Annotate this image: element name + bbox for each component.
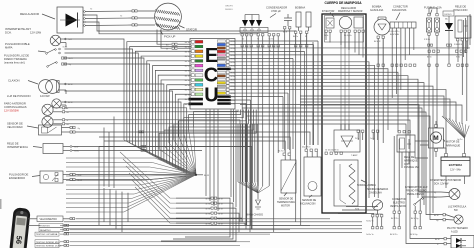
- wire fuel pump down: [378, 39, 383, 199]
- svg-text:W.Bk: W.Bk: [230, 45, 234, 47]
- connector rele second row: [457, 64, 468, 66]
- node ground bundle Bk.W: [195, 174, 209, 177]
- svg-text:Gr.W: Gr.W: [74, 146, 79, 149]
- svg-text:W.Bk: W.Bk: [230, 97, 234, 99]
- svg-text:SONDA RESERVA: SONDA RESERVA: [367, 188, 388, 191]
- svg-text:CORTAS/LARGAS: CORTAS/LARGAS: [4, 105, 27, 109]
- wire reg-stator phase2: [85, 17, 132, 20]
- svg-text:FARO ANTERIOR: FARO ANTERIOR: [4, 102, 26, 106]
- wires bottom buses: [64, 222, 362, 233]
- wires diagnosis down: [392, 28, 414, 98]
- connector rele interm: [70, 146, 79, 153]
- svg-text:A LED: A LED: [451, 231, 458, 234]
- svg-text:VENTILADOR: VENTILADOR: [390, 205, 406, 208]
- label conector ventilador: [390, 198, 406, 208]
- wires battery area: [415, 141, 465, 188]
- svg-text:PULSADOR LUZ DE: PULSADOR LUZ DE: [4, 54, 29, 58]
- svg-text:BOMBA: BOMBA: [372, 5, 382, 9]
- label REGULADOR: [20, 12, 40, 16]
- connector bomba second row: [377, 39, 384, 67]
- svg-text:MOTOR: MOTOR: [281, 205, 290, 208]
- svg-text:W.Bk: W.Bk: [230, 76, 234, 78]
- wires center verticals: [246, 41, 318, 229]
- connector ventilador: [391, 209, 400, 221]
- label sensor temp: [277, 193, 295, 208]
- svg-text:DCH. 12V-6W: DCH. 12V-6W: [434, 184, 449, 186]
- wire reg out B: [85, 22, 258, 34]
- lambda heater resistor: [340, 164, 355, 204]
- label luz patricula: [448, 206, 467, 213]
- svg-text:GRUPO: GRUPO: [225, 6, 233, 8]
- svg-text:Bk.Ye: Bk.Ye: [185, 80, 190, 82]
- labels sonda reserva pins: [366, 221, 374, 223]
- svg-text:W.Bk: W.Bk: [230, 72, 234, 74]
- svg-text:CONECTOR: CONECTOR: [393, 5, 408, 9]
- svg-text:W.Bk: W.Bk: [230, 52, 234, 54]
- label conector diagnosis: [392, 5, 408, 20]
- wires sensor feeds: [99, 137, 290, 153]
- svg-text:RELE DE: RELE DE: [455, 5, 466, 9]
- svg-text:INCLINACION: INCLINACION: [300, 203, 316, 206]
- diode pack: [240, 15, 268, 33]
- svg-text:FRENO TRASERA: FRENO TRASERA: [4, 57, 27, 61]
- connector diodo second row: [448, 45, 450, 66]
- connector mid-right row: [355, 130, 379, 140]
- label rele intermitencia: [7, 142, 42, 150]
- injector symbol: [326, 18, 334, 28]
- label pulsador doble mapa: [5, 42, 30, 50]
- wire fuse up: [429, 8, 437, 14]
- wires bottom right feeds: [240, 105, 444, 244]
- wires throttle down: [326, 33, 363, 131]
- svg-text:Gr (Gr.B) W.Ye: Gr (Gr.B) W.Ye: [325, 149, 340, 152]
- svg-text:12V-5W: 12V-5W: [40, 94, 50, 98]
- ECU box: [190, 39, 235, 110]
- connector claxon: [64, 83, 72, 86]
- wire velocimetro: [63, 218, 330, 220]
- svg-text:Bk.Ye: Bk.Ye: [185, 61, 190, 63]
- svg-text:Bk.Ye: Bk.Ye: [185, 56, 190, 58]
- starter relay: [397, 131, 415, 153]
- svg-text:W.Bk: W.Bk: [230, 79, 234, 81]
- svg-text:Ye.R: Ye.R: [68, 39, 73, 41]
- svg-text:Bk.Ye: Bk.Ye: [185, 70, 190, 72]
- svg-text:Bk.Ye: Bk.Ye: [185, 99, 190, 101]
- connector ventilador second row: [390, 214, 400, 237]
- svg-text:DCH.: DCH.: [5, 31, 12, 35]
- connector stator: [132, 10, 137, 26]
- svg-text:Bk.W Pu: Bk.W Pu: [391, 218, 398, 220]
- svg-text:Ye.G Gr.W Pu: Ye.G Gr.W Pu: [388, 31, 399, 33]
- wires masa fan stem: [257, 193, 259, 199]
- connector piloto: [435, 238, 451, 247]
- connector fuse second row: [428, 64, 438, 66]
- svg-text:DESBO.: DESBO.: [225, 9, 234, 11]
- svg-text:Bk.Ye: Bk.Ye: [185, 51, 190, 53]
- label pulsador encendido: [9, 173, 40, 181]
- wires ECU right buses: [230, 41, 471, 213]
- label Gr Pu: [457, 138, 463, 141]
- svg-text:RELE DE: RELE DE: [7, 142, 19, 146]
- wires ventilador feeds: [394, 136, 399, 209]
- connector pickup: [166, 43, 177, 50]
- svg-text:Bk.Ye: Bk.Ye: [185, 47, 190, 49]
- connector lambda: [325, 152, 342, 154]
- connector int ant: [64, 38, 72, 41]
- svg-text:Gy: Gy: [78, 128, 80, 130]
- svg-text:12V-10W: 12V-10W: [30, 31, 42, 35]
- wire intermitente post: [434, 192, 449, 199]
- svg-text:W.Bk: W.Bk: [230, 83, 234, 85]
- wire stator pickup down2: [161, 29, 172, 48]
- lamp patricula: [454, 215, 463, 224]
- label regulador mariposa: [338, 7, 363, 13]
- svg-text:POSITIVO: POSITIVO: [40, 226, 50, 228]
- connector interruptor second row: [410, 214, 421, 237]
- svg-text:Ye.Bu Ye: Ye.Bu Ye: [366, 234, 374, 236]
- battery BT1: [441, 148, 470, 176]
- label bobina: [295, 6, 305, 10]
- wire sensor velocidad stub: [62, 128, 71, 133]
- lamp faro cortas: [42, 104, 53, 115]
- label interruptor freno tras: [405, 186, 428, 196]
- divisor connector table: [161, 197, 245, 241]
- svg-text:W.Bk: W.Bk: [230, 86, 234, 88]
- svg-text:Bk.W: Bk.W: [435, 239, 440, 241]
- sensor temperatura: [278, 150, 296, 194]
- wire pulsador enc 2: [76, 175, 197, 179]
- connector pulsador mapa: [59, 45, 68, 54]
- wires ECU underside to divisor: [206, 110, 236, 212]
- svg-text:U: U: [204, 85, 218, 107]
- svg-text:PULSADOR DOBLE: PULSADOR DOBLE: [5, 42, 30, 46]
- lambda heater box: [334, 160, 358, 206]
- ECU right pins: [217, 40, 235, 106]
- wires under ECU wrap: [159, 110, 256, 175]
- svg-text:W: W: [166, 49, 168, 51]
- svg-text:SENSOR DE: SENSOR DE: [7, 122, 23, 126]
- svg-text:VELOCIMETRO: VELOCIMETRO: [40, 218, 58, 221]
- label diodo: [443, 11, 454, 21]
- svg-text:Bk.Ye: Bk.Ye: [185, 104, 190, 106]
- diagnosis connector: [390, 22, 416, 28]
- svg-text:W.Bk: W.Bk: [230, 55, 234, 57]
- throttle body bold box: [322, 14, 366, 213]
- connector pulsador enc: [70, 173, 82, 182]
- label motor arranque: [443, 139, 461, 148]
- fuel level switch: [372, 200, 383, 217]
- svg-text:STATOR: STATOR: [186, 28, 197, 32]
- left edge mark: [0, 199, 2, 209]
- label rele inyeccion: [453, 5, 468, 13]
- svg-text:INYECCION: INYECCION: [453, 8, 468, 12]
- svg-text:Bk.Ye: Bk.Ye: [185, 85, 190, 87]
- lamp intermitente ant: [50, 35, 61, 46]
- svg-text:CLAXON: CLAXON: [8, 79, 20, 83]
- svg-text:Bk.Ye Gr: Bk.Ye Gr: [278, 150, 286, 153]
- wires fan lower: [66, 158, 196, 212]
- svg-text:Bk.W R: Bk.W R: [374, 41, 381, 43]
- svg-text:Bk.W Pu: Bk.W Pu: [390, 234, 397, 236]
- svg-text:BATTERIA: BATTERIA: [449, 163, 462, 167]
- wire pulsador enc 1: [76, 174, 192, 176]
- horn claxon: [28, 80, 59, 94]
- label masa chasis: [246, 214, 263, 217]
- label STATOR: [179, 26, 197, 32]
- labels interruptor pins: [411, 218, 419, 220]
- svg-text:INTERMITENTE ANT.: INTERMITENTE ANT.: [5, 27, 32, 31]
- svg-text:W.Bk: W.Bk: [230, 90, 234, 92]
- svg-text:SONDA LAMBDA: SONDA LAMBDA: [357, 184, 376, 187]
- wire lamp int ant stub: [61, 39, 66, 47]
- wires starter relay down: [402, 152, 428, 168]
- coil bobina: [293, 12, 302, 38]
- regulator pins: [84, 11, 86, 27]
- svg-text:Bk.Ye: Bk.Ye: [185, 42, 190, 44]
- label intermitente ant dch: [5, 27, 42, 35]
- label luz posicion: [7, 94, 50, 98]
- svg-text:FUSIBLE +15A: FUSIBLE +15A: [424, 6, 442, 10]
- ground masa chasis: [255, 200, 261, 209]
- label pulsador freno tras: [4, 54, 29, 65]
- label sonda reserva: [367, 188, 388, 195]
- pulsador encendido box: [40, 171, 63, 183]
- wires masa bundle: [238, 124, 258, 193]
- label grupo: [225, 6, 234, 11]
- stator: [138, 3, 182, 30]
- connector diode pack: [241, 34, 264, 41]
- wires bottom-left verticals: [104, 188, 128, 232]
- wires lambda out: [338, 207, 378, 214]
- wire faro pass-under: [65, 112, 313, 145]
- throttle sensor rect: [354, 17, 363, 28]
- connector pulsador freno: [62, 57, 74, 66]
- svg-text:NEGATIVO: NEGATIVO: [40, 229, 51, 232]
- connector bobina second row: [295, 34, 308, 47]
- svg-text:PICK-UP: PICK-UP: [164, 35, 175, 39]
- ECU left pins: [185, 40, 203, 106]
- led tail box: [451, 236, 474, 248]
- switch pulsador freno: [47, 62, 58, 68]
- label velocimetro: [37, 216, 63, 222]
- svg-text:4700 µF: 4700 µF: [271, 9, 281, 13]
- label sensor inclinacion: [300, 195, 316, 206]
- connector fuel pump: [374, 36, 384, 43]
- wires left staircase: [65, 39, 197, 175]
- capacitor C1: [283, 14, 292, 34]
- label reg wire Ye: [90, 8, 123, 17]
- connector marks right col: [427, 44, 467, 59]
- svg-text:TESTIGO LUZ LARGA: TESTIGO LUZ LARGA: [36, 233, 58, 236]
- wires rele inyeccion down: [458, 41, 467, 121]
- svg-text:R.Bk W Bk: R.Bk W Bk: [454, 44, 463, 46]
- svg-text:Bk.W Gy: Bk.W Gy: [411, 218, 419, 220]
- wire reg-stator phase1: [85, 10, 132, 13]
- labels rele inyeccion pins: [454, 44, 463, 46]
- svg-text:W.Bk: W.Bk: [230, 100, 234, 102]
- sensor inclinacion: [302, 146, 321, 197]
- svg-text:Bk.Ye: Bk.Ye: [185, 90, 190, 92]
- svg-text:ENCENDIDO: ENCENDIDO: [9, 176, 25, 180]
- switch freno tras: [414, 198, 424, 214]
- svg-text:Ye.Bu: Ye.Bu: [370, 138, 375, 140]
- labels diagnosis pins: [388, 31, 399, 36]
- svg-text:MARIPOSA Y SENSOR: MARIPOSA Y SENSOR: [338, 10, 363, 13]
- connector diode pack second row: [241, 45, 279, 53]
- svg-text:TESTIGO INTERM. DCHO.: TESTIGO INTERM. DCHO.: [36, 246, 62, 248]
- svg-text:56: 56: [14, 235, 24, 244]
- svg-text:12V - 9Ah: 12V - 9Ah: [450, 169, 461, 172]
- lamp intermitente post: [449, 189, 460, 200]
- svg-text:T.AMP: T.AMP: [351, 154, 358, 157]
- svg-text:Bk.W Gy: Bk.W Gy: [410, 234, 418, 236]
- wire pickup to ecu1: [178, 43, 191, 45]
- svg-text:MASA CHASIS: MASA CHASIS: [246, 214, 263, 217]
- svg-text:DIODO: DIODO: [445, 14, 452, 16]
- lambda amp box: [334, 124, 360, 152]
- connector sonda second row: [366, 217, 383, 236]
- svg-text:W.Bk: W.Bk: [230, 58, 234, 60]
- speedometer wire rows: [35, 224, 310, 248]
- wire reg out R: [85, 15, 296, 31]
- starter motor M: [429, 121, 444, 157]
- svg-text:ARRANQUE: ARRANQUE: [446, 145, 461, 148]
- svg-text:CONDENSADOR: CONDENSADOR: [266, 6, 287, 10]
- svg-text:Bk.W: Bk.W: [434, 215, 439, 217]
- label inyector: [322, 10, 335, 17]
- label bomba gasolina: [370, 5, 384, 13]
- wire sensor veloc 2: [99, 147, 252, 230]
- svg-text:DIAGNOSIS: DIAGNOSIS: [392, 8, 407, 12]
- throttle motor circle: [339, 16, 351, 28]
- svg-text:(Gy) W.Gr: (Gy) W.Gr: [302, 146, 311, 149]
- svg-text:Bk.Ye: Bk.Ye: [185, 75, 190, 77]
- label CUERPO DE MARIPOSA: [324, 1, 362, 5]
- svg-text:PEDAL FRENO: PEDAL FRENO: [407, 193, 424, 196]
- svg-text:W.Bk: W.Bk: [230, 62, 234, 64]
- wire speedo leads: [28, 219, 40, 226]
- svg-text:VELOCIDAD: VELOCIDAD: [7, 125, 23, 129]
- label claxon: [8, 79, 20, 83]
- label sensor velocidad: [7, 122, 38, 130]
- svg-text:W.Bk: W.Bk: [230, 65, 234, 67]
- wires left verticals: [99, 117, 114, 226]
- speedometer device: [9, 207, 31, 248]
- label fusible 15A: [424, 6, 442, 15]
- connector posicion: [64, 101, 72, 104]
- wire sensor veloc 1: [76, 131, 311, 145]
- svg-text:Bk.Ye: Bk.Ye: [185, 94, 190, 96]
- svg-text:PULSADOR DE: PULSADOR DE: [9, 173, 28, 177]
- diode D1: [445, 16, 453, 45]
- svg-text:GASOLINA: GASOLINA: [370, 8, 384, 12]
- wire rele interm stub: [63, 147, 70, 151]
- wire rele interm 1: [72, 145, 250, 232]
- wire fuse down: [429, 36, 437, 129]
- svg-text:Gr.Bu: Gr.Bu: [74, 150, 79, 153]
- svg-text:Bk.Ye: Bk.Ye: [185, 66, 190, 68]
- svg-text:W.Bk: W.Bk: [230, 93, 234, 95]
- svg-text:Gy: Gy: [436, 220, 438, 222]
- connector group2: [268, 34, 279, 41]
- svg-text:INTERMITENTE POSTERIOR: INTERMITENTE POSTERIOR: [430, 180, 461, 182]
- svg-text:BOBINA: BOBINA: [295, 6, 305, 10]
- svg-text:MOTOR DE: MOTOR DE: [446, 141, 460, 144]
- label T AMP: [351, 154, 358, 157]
- fuse pair: [426, 14, 439, 36]
- label piloto trasero: [447, 227, 468, 234]
- wire reg-stator phase3: [85, 24, 132, 27]
- labels fuse: [424, 39, 430, 41]
- wires right edge verticals: [463, 14, 470, 57]
- lamp posicion: [52, 99, 61, 108]
- wire pulsador enc stub: [63, 175, 70, 180]
- svg-text:Bk.W: Bk.W: [68, 84, 73, 86]
- svg-text:REGULADOR: REGULADOR: [20, 12, 40, 16]
- injection relay: [455, 16, 471, 41]
- wires divisor diagonals: [120, 152, 176, 223]
- svg-text:W.Bk: W.Bk: [230, 48, 234, 50]
- svg-text:CUERPO DE MARIPOSA: CUERPO DE MARIPOSA: [324, 1, 362, 5]
- connector sensor velocidad: [70, 126, 80, 133]
- wire pickup to ecu2: [178, 47, 191, 49]
- svg-text:12V 55/55W: 12V 55/55W: [4, 109, 19, 113]
- label rele arranque: [404, 156, 419, 169]
- sensor velocidad box: [39, 125, 62, 135]
- wire arrow to regulator: [42, 14, 55, 19]
- coil secondary: [305, 12, 311, 38]
- label sonda lambda: [357, 180, 376, 187]
- svg-text:(maneta freno del.): (maneta freno del.): [4, 62, 25, 65]
- svg-text:REGULADOR: REGULADOR: [341, 7, 356, 10]
- wires top-center verticals: [242, 29, 313, 233]
- wire faro largas W: [65, 120, 240, 222]
- connector patricula: [434, 214, 455, 223]
- svg-text:Bk.Ye: Bk.Ye: [427, 57, 432, 59]
- svg-text:MAPA: MAPA: [5, 46, 13, 50]
- svg-text:GASOLINA: GASOLINA: [369, 192, 382, 195]
- svg-text:R Bk: R Bk: [456, 57, 460, 59]
- svg-text:W.Bk: W.Bk: [230, 104, 234, 106]
- label intermitente post: [430, 180, 461, 186]
- wire bundle cone to battery: [300, 96, 469, 154]
- fuel pump: [374, 17, 390, 35]
- wire claxon stub: [59, 84, 66, 94]
- connector throttle: [324, 30, 364, 37]
- svg-text:Bu R: Bu R: [283, 32, 288, 34]
- svg-text:W Gr: W Gr: [324, 34, 329, 37]
- lambda connector labels: [325, 149, 340, 152]
- wire stator pickup down1: [157, 30, 172, 45]
- regulator U1: [57, 7, 83, 33]
- connector diagnosis second row: [391, 64, 416, 66]
- label faro anterior: [4, 102, 27, 110]
- svg-text:INTERMITENCIA: INTERMITENCIA: [7, 145, 28, 149]
- svg-text:Bk.W: Bk.W: [68, 102, 73, 104]
- svg-text:C: C: [204, 65, 218, 87]
- wire rele interm 2: [72, 149, 202, 151]
- wire posicion stub: [61, 102, 66, 109]
- switch pulsador mapa: [38, 49, 56, 55]
- ECU letters: [204, 45, 219, 107]
- svg-text:W.Bk: W.Bk: [230, 41, 234, 43]
- label faro rojo: [4, 109, 19, 113]
- svg-text:Bk.W: Bk.W: [204, 175, 209, 177]
- svg-text:LUZ DE POSICION: LUZ DE POSICION: [7, 94, 31, 98]
- label NTb: [355, 209, 360, 211]
- rele intermitencia box: [43, 144, 63, 154]
- label condensador: [266, 6, 287, 18]
